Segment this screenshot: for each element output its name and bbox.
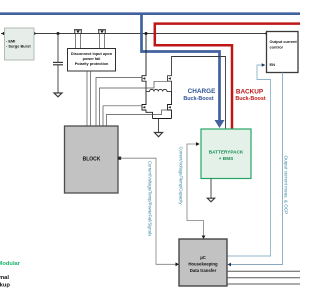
svg-text:+ BMS: + BMS xyxy=(219,156,233,161)
wire H-bridge left rail + transistor Q3 xyxy=(142,34,146,92)
wire battery telemetry to uC xyxy=(187,144,204,236)
transistor Q5 (low side left) xyxy=(142,92,153,119)
transistor Q2 (input disconnect) xyxy=(98,30,106,34)
svg-text:Buck-Boost: Buck-Boost xyxy=(183,96,213,102)
wire protection box to BLOCK xyxy=(86,71,88,126)
node input xyxy=(3,32,6,35)
batterypack box xyxy=(201,129,251,179)
svg-text:control: control xyxy=(270,45,283,50)
node BLOCK telemetry port xyxy=(118,157,121,160)
svg-text:Normal: Normal xyxy=(0,275,9,281)
wire data bus 3 xyxy=(227,283,300,285)
node converter tap xyxy=(145,32,148,35)
wire normal power bus (thick blue, top) xyxy=(0,12,300,15)
inductor L1 xyxy=(146,89,172,91)
wire battery feed + transistor Q4 xyxy=(168,57,226,130)
wire BLOCK telemetry to uC xyxy=(121,158,176,264)
transistor Q6 (low side right) xyxy=(168,92,172,119)
arrowhead charge into battery xyxy=(215,120,225,128)
wire data bus 1 xyxy=(227,270,300,272)
svg-text:Current/Voltage/Temp/PowerFail: Current/Voltage/Temp/PowerFail/Signals xyxy=(148,161,153,236)
node capacitor tap xyxy=(57,32,60,35)
svg-text:Buck-Boost: Buck-Boost xyxy=(235,96,265,102)
svg-text:CHARGE: CHARGE xyxy=(188,88,216,95)
wire gate drive 2 xyxy=(100,81,168,126)
wire gate drive 4 xyxy=(107,110,168,126)
ground battery output arrow xyxy=(207,198,214,202)
svg-text:- EMI: - EMI xyxy=(6,38,15,43)
wire charge path (thick blue) xyxy=(142,14,220,121)
svg-text:BATTERYPACK: BATTERYPACK xyxy=(209,150,244,155)
svg-text:Disconnect input upon: Disconnect input upon xyxy=(71,52,113,56)
svg-text:Modular: Modular xyxy=(0,261,21,267)
wire backup path (thick red) xyxy=(155,24,300,130)
svg-text:Output current meas. & OCP: Output current meas. & OCP xyxy=(284,156,289,215)
svg-text:Output current: Output current xyxy=(270,39,298,44)
node EMI out xyxy=(33,32,36,35)
protection box (disconnect / polarity) xyxy=(68,49,116,72)
node output box tap xyxy=(265,32,268,35)
wire data bus 2 xyxy=(227,277,300,279)
transistor Q1 (input disconnect) xyxy=(74,30,82,34)
wire bridge ground rail xyxy=(153,118,172,120)
wire gate drive 1 xyxy=(96,78,142,127)
svg-text:- Surge Burst: - Surge Burst xyxy=(6,44,31,49)
wire EN from uC xyxy=(228,65,271,256)
ground input xyxy=(54,93,62,97)
svg-text:Data transfer: Data transfer xyxy=(190,268,217,273)
svg-text:Current/Voltage/Temp/Capacity: Current/Voltage/Temp/Capacity xyxy=(179,147,184,206)
wire Q2 gate to protection box xyxy=(99,34,101,49)
svg-text:Backup: Backup xyxy=(0,283,10,289)
svg-text:BLOCK: BLOCK xyxy=(83,157,101,163)
svg-text:Housekeeping: Housekeeping xyxy=(188,262,218,267)
wire battery output xyxy=(210,179,212,199)
wire Q1 gate to protection box xyxy=(75,34,77,49)
svg-text:Polarity protection: Polarity protection xyxy=(75,62,109,66)
wire gate drive 3 xyxy=(103,106,142,126)
output current control box xyxy=(267,32,299,73)
capacitor C1 xyxy=(53,34,63,93)
svg-text:µC: µC xyxy=(200,255,206,260)
BLOCK box U1 xyxy=(65,126,119,193)
svg-text:EN: EN xyxy=(270,62,276,67)
wire output telemetry to uC xyxy=(231,73,283,265)
ground bridge xyxy=(155,133,163,137)
EMI filter box xyxy=(5,28,35,60)
uC housekeeping box xyxy=(179,239,227,286)
svg-text:power fail: power fail xyxy=(83,57,101,61)
svg-text:BACKUP: BACKUP xyxy=(236,89,264,96)
wire main bus (normal power, gray) xyxy=(1,33,267,35)
